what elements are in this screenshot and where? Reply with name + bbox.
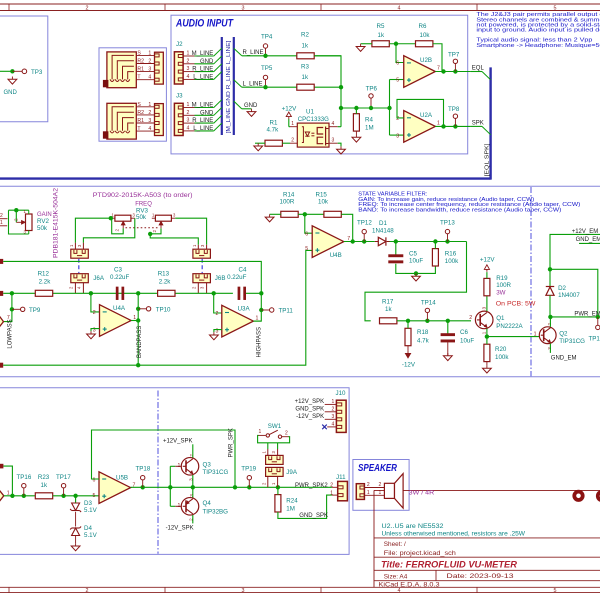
svg-text:U4A: U4A	[113, 305, 126, 312]
svg-text:6: 6	[305, 231, 308, 237]
junction	[394, 239, 398, 243]
gang dashed link	[126, 227, 160, 229]
svg-text:BAND: To increase bandwidth, r: BAND: To increase bandwidth, reduce resi…	[358, 207, 561, 213]
Q1 collector wire	[486, 296, 488, 311]
op-amp U4A	[100, 305, 132, 337]
svg-text:4: 4	[398, 5, 401, 11]
svg-text:1: 1	[291, 121, 294, 127]
wire after D1	[390, 241, 467, 243]
svg-text:TP8: TP8	[448, 106, 460, 113]
svg-text:SPEAKER: SPEAKER	[358, 463, 398, 474]
jack 1 mating connector	[155, 52, 164, 84]
junction	[548, 315, 552, 319]
zener D3 5.1V	[75, 496, 77, 503]
wire R14-R15	[298, 213, 324, 215]
svg-text:+12V: +12V	[480, 257, 495, 264]
J2 pin 3 R_LINE	[183, 71, 194, 73]
wire TP9 branch	[4, 293, 12, 321]
U1 pin 4	[329, 126, 338, 128]
wire Q1 emitter to Q2 base	[487, 336, 540, 338]
svg-text:1: 1	[481, 331, 486, 334]
bus entry SPK	[471, 125, 482, 127]
svg-text:-12V: -12V	[402, 362, 416, 369]
wire feedback rail	[365, 242, 467, 321]
resistor R20	[484, 344, 490, 361]
svg-text:3: 3	[332, 138, 335, 144]
svg-text:3: 3	[242, 588, 245, 594]
graphic box speaker amp section (bottom)	[0, 388, 349, 555]
svg-text:R23: R23	[38, 474, 50, 481]
svg-text:TIP32BG: TIP32BG	[203, 508, 229, 515]
J10 pin 1	[325, 403, 337, 405]
junction	[247, 485, 251, 489]
svg-text:1k: 1k	[385, 306, 392, 313]
svg-text:SW1: SW1	[268, 423, 282, 430]
J2 pin 2 GND	[183, 63, 194, 65]
graphic box power section (top left)	[0, 16, 48, 122]
wire bandpass vertical	[137, 293, 139, 365]
U1 pin 3	[329, 142, 338, 144]
svg-text:R24: R24	[286, 498, 298, 505]
potentiometer RV2 GAIN	[16, 221, 21, 223]
separator dash-dot speaker driver	[157, 391, 159, 554]
svg-text:S: S	[137, 102, 141, 108]
bus entry	[214, 48, 222, 56]
wires FREQ pots	[75, 218, 110, 243]
separator dash-dot EM driver	[530, 187, 532, 376]
svg-text:6: 6	[396, 61, 399, 67]
test point TP11	[261, 309, 269, 311]
bus entry	[214, 72, 222, 80]
ground	[415, 273, 417, 276]
svg-text:TP7: TP7	[448, 51, 460, 58]
svg-text:1: 1	[148, 50, 151, 56]
svg-text:1: 1	[367, 490, 370, 496]
wire to U3A pin2	[214, 293, 222, 313]
svg-text:U3A: U3A	[238, 305, 251, 312]
svg-text:GND_EM: GND_EM	[551, 356, 577, 362]
junction	[394, 42, 398, 46]
J2 pin 4 L_LINE	[183, 78, 194, 80]
junction	[485, 334, 489, 338]
wire R23 to U5B	[53, 495, 99, 497]
svg-text:2: 2	[367, 482, 370, 488]
svg-text:3: 3	[148, 118, 151, 124]
svg-text:AUDIO INPUT: AUDIO INPUT	[175, 17, 234, 29]
wire Q3 Q4 base rail	[169, 466, 171, 506]
junction	[168, 485, 172, 489]
junction	[453, 69, 457, 73]
J11 pin 2	[332, 486, 338, 488]
svg-text:TP3: TP3	[31, 69, 43, 76]
svg-text:2: 2	[14, 218, 19, 221]
junction	[109, 216, 113, 220]
svg-text:2: 2	[93, 310, 96, 316]
svg-text:100R: 100R	[280, 199, 295, 206]
svg-text:TP16: TP16	[17, 474, 32, 481]
svg-text:D2: D2	[558, 285, 566, 292]
svg-text:2.2k: 2.2k	[159, 278, 172, 285]
svg-text:100k: 100k	[495, 354, 509, 361]
gnd R14	[270, 213, 281, 215]
Q2 emitter / GND_EM	[549, 344, 551, 353]
junction	[233, 485, 237, 489]
junction	[259, 291, 263, 295]
svg-text:TP14: TP14	[421, 300, 436, 307]
svg-text:5: 5	[93, 493, 96, 499]
speaker symbol LS1	[384, 483, 394, 498]
resistor R4	[353, 114, 359, 131]
junction	[406, 319, 410, 323]
junction	[136, 307, 140, 311]
bus entry	[214, 100, 222, 108]
svg-text:Q4: Q4	[203, 500, 212, 507]
junction	[414, 271, 418, 275]
svg-text:GND: GND	[200, 110, 214, 116]
svg-text:4: 4	[332, 121, 335, 127]
svg-text:GND_SPK: GND_SPK	[295, 407, 324, 413]
junction	[61, 494, 65, 498]
svg-text:R5: R5	[377, 23, 385, 30]
svg-text:+12V_SPK: +12V_SPK	[295, 399, 325, 405]
audio jack symbol 2	[107, 103, 136, 139]
svg-text:4.7k: 4.7k	[267, 126, 280, 133]
svg-text:R19: R19	[496, 275, 508, 282]
svg-text:10uF: 10uF	[409, 258, 423, 265]
svg-text:2: 2	[332, 406, 335, 412]
svg-text:GND: GND	[200, 59, 214, 65]
junction	[276, 485, 280, 489]
page border frame	[0, 3, 600, 5]
bus entry	[214, 108, 222, 116]
junction	[10, 494, 14, 498]
svg-text:1: 1	[534, 332, 537, 338]
svg-text:4: 4	[187, 126, 190, 132]
svg-text:J10: J10	[336, 390, 347, 397]
svg-text:input to ground. Audio input i: input to ground. Audio input is pulled d…	[476, 28, 600, 34]
svg-text:CPC1333G: CPC1333G	[298, 116, 329, 123]
svg-text:100k: 100k	[445, 258, 459, 265]
junction	[263, 54, 267, 58]
junction	[148, 232, 152, 236]
U1 pin 2	[290, 142, 297, 144]
J10 pin 3	[325, 418, 337, 420]
svg-text:3: 3	[396, 133, 399, 139]
svg-text:J6B: J6B	[215, 275, 226, 282]
svg-text:3W: 3W	[496, 289, 505, 296]
svg-text:Smartphone -> Headphone: Musiq: Smartphone -> Headphone: Musique=50	[476, 43, 600, 49]
wire R6 to output	[433, 44, 442, 72]
svg-text:50k: 50k	[37, 225, 48, 232]
jumper J6A	[71, 274, 89, 283]
bus vertical EQL SPK	[489, 67, 491, 179]
ground R4	[355, 135, 357, 138]
svg-text:R_LINE: R_LINE	[192, 118, 213, 124]
svg-text:J3: J3	[176, 93, 183, 100]
wire +12V_EM	[550, 234, 600, 286]
junction	[339, 106, 343, 110]
svg-text:R14: R14	[283, 192, 295, 199]
junction	[369, 106, 373, 110]
J3 pin 4 L_LINE	[183, 130, 194, 132]
svg-text:2: 2	[148, 59, 151, 65]
svg-text:2: 2	[330, 482, 333, 488]
svg-text:0.22uF: 0.22uF	[110, 274, 129, 281]
jumper J4A upper	[71, 249, 89, 258]
svg-text:BANDPASS: BANDPASS	[137, 326, 143, 358]
svg-text:TIP31CG: TIP31CG	[203, 469, 229, 476]
svg-text:J11: J11	[336, 474, 346, 481]
svg-text:4: 4	[148, 126, 151, 132]
junction	[445, 239, 449, 243]
svg-text:+12V_EM: +12V_EM	[572, 229, 599, 235]
svg-text:R3: R3	[301, 63, 309, 70]
svg-text:Unless otherwised mentioned, r: Unless otherwised mentioned, resistors a…	[382, 531, 526, 537]
potentiometer RV3B	[155, 215, 171, 221]
svg-text:C5: C5	[409, 250, 417, 257]
svg-text:TP13: TP13	[440, 220, 455, 227]
J10 pin 2	[325, 411, 337, 413]
svg-text:5: 5	[554, 5, 557, 11]
svg-text:U4B: U4B	[330, 252, 342, 259]
svg-text:2: 2	[114, 229, 119, 232]
wire -12V_SPK	[192, 515, 194, 523]
off-page pin lowpass feed	[0, 291, 3, 296]
svg-text:J6A: J6A	[93, 275, 105, 282]
svg-text:+12V: +12V	[282, 106, 297, 113]
svg-text:3: 3	[242, 5, 245, 11]
svg-text:R18: R18	[417, 329, 429, 336]
svg-text:R6: R6	[419, 23, 427, 30]
wire tp6 row	[341, 107, 390, 109]
svg-text:EQL: EQL	[472, 66, 485, 72]
wire right rail	[314, 56, 341, 127]
zener D4 5.1V	[72, 527, 80, 529]
bus entry	[214, 56, 222, 64]
svg-text:TP18: TP18	[136, 466, 151, 473]
gnd U3A pin3	[214, 330, 222, 333]
EM pads wire	[374, 489, 600, 491]
svg-text:50k: 50k	[136, 214, 147, 221]
svg-text:M_LINE: M_LINE	[192, 51, 214, 57]
svg-text:10k: 10k	[318, 199, 329, 206]
junction	[10, 69, 14, 73]
resistor R16	[432, 249, 438, 266]
svg-text:1: 1	[259, 429, 262, 435]
junction	[441, 124, 445, 128]
svg-text:1k: 1k	[302, 74, 309, 81]
svg-text:2: 2	[291, 138, 294, 144]
Q2 collector wire	[549, 317, 551, 327]
bus horizontal main	[0, 177, 491, 179]
svg-text:D4: D4	[84, 525, 92, 532]
svg-text:SPK: SPK	[472, 121, 484, 127]
junction	[14, 208, 18, 212]
svg-text:Q2: Q2	[559, 331, 568, 338]
svg-text:3: 3	[332, 414, 335, 420]
title block frame	[374, 537, 600, 539]
svg-text:GND_EM: GND_EM	[576, 237, 600, 243]
junction	[10, 307, 14, 311]
junction	[89, 291, 93, 295]
svg-text:3: 3	[187, 118, 190, 124]
bus entry	[214, 64, 222, 72]
svg-text:R2: R2	[137, 59, 144, 65]
resistor R24	[275, 495, 281, 512]
svg-text:1N4148: 1N4148	[372, 227, 394, 234]
svg-text:TP19: TP19	[241, 466, 256, 473]
svg-text:1k: 1k	[302, 42, 309, 49]
svg-text:R12: R12	[38, 271, 50, 278]
svg-text:U5B: U5B	[116, 475, 128, 482]
test point TP9	[12, 308, 21, 310]
svg-text:TP5: TP5	[261, 65, 273, 72]
off-page pins left	[0, 218, 8, 220]
svg-text:5: 5	[554, 588, 557, 594]
wire R17 out	[397, 320, 471, 322]
svg-text:R2: R2	[301, 32, 309, 39]
wires GAIN pot	[9, 209, 29, 211]
junction	[425, 319, 429, 323]
wire gnd stub	[242, 108, 252, 110]
svg-text:D1: D1	[379, 220, 387, 227]
junction	[548, 267, 552, 271]
svg-text:U1: U1	[306, 109, 314, 116]
gnd R5	[361, 43, 372, 45]
power -12V	[407, 351, 409, 355]
svg-text:1: 1	[437, 121, 440, 127]
wire U5A loop	[3, 466, 12, 496]
mech link dashed	[201, 259, 203, 274]
svg-text:TP9: TP9	[29, 307, 41, 314]
jumper J9B upper	[266, 455, 284, 464]
junction	[446, 319, 450, 323]
svg-text:PWR_SPK: PWR_SPK	[228, 428, 234, 457]
svg-text:RV2: RV2	[37, 218, 49, 225]
svg-text:C6: C6	[460, 329, 468, 336]
svg-text:Q1: Q1	[496, 315, 505, 322]
wire +12V_SPK	[192, 444, 194, 457]
svg-text:4: 4	[332, 422, 335, 428]
svg-text:R4: R4	[365, 117, 373, 124]
junction	[339, 85, 343, 89]
junction	[441, 69, 445, 73]
wire L_LINE row	[242, 86, 341, 88]
SW1 wires	[258, 435, 290, 442]
svg-text:TP11: TP11	[279, 308, 294, 315]
wire R1 to pin2	[282, 142, 290, 144]
svg-text:L_LINE: L_LINE	[193, 126, 213, 132]
junction	[596, 315, 600, 319]
J3 pin 2 GND	[183, 114, 194, 116]
svg-text:3W / 4R: 3W / 4R	[409, 491, 435, 497]
svg-text:2: 2	[469, 315, 472, 321]
junction	[433, 239, 437, 243]
junction	[212, 291, 216, 295]
junction	[10, 291, 14, 295]
svg-text:R_LINE: R_LINE	[192, 67, 213, 73]
svg-text:Q3: Q3	[203, 462, 212, 469]
J11 pin 1	[332, 494, 338, 496]
svg-text:2: 2	[216, 311, 219, 317]
svg-text:1: 1	[0, 220, 3, 226]
wire to U2B pin5 and U2A pin3	[389, 80, 391, 136]
ground	[340, 146, 342, 149]
svg-text:R1: R1	[137, 118, 144, 124]
svg-text:GND: GND	[4, 90, 18, 96]
svg-text:4: 4	[148, 75, 151, 81]
svg-text:J9A: J9A	[286, 469, 298, 476]
op-amp U3A	[222, 305, 254, 337]
junction	[136, 291, 140, 295]
potentiometer RV3A	[115, 215, 131, 221]
svg-text:2: 2	[187, 110, 190, 116]
svg-text:0.22uF: 0.22uF	[227, 274, 246, 281]
speaker wires	[364, 487, 384, 489]
off-page pin U5A feedback	[0, 464, 3, 469]
mech link dashed	[78, 259, 80, 274]
wire R_LINE row	[242, 55, 341, 57]
gnd U4A pin3	[91, 329, 100, 332]
svg-text:1: 1	[148, 102, 151, 108]
svg-text:1: 1	[332, 399, 335, 405]
wire pin4 to rail	[338, 126, 341, 128]
wire GND_SPK loop	[278, 495, 332, 518]
bus audio lines vertical pair	[221, 37, 223, 135]
audio jack symbol 1	[107, 52, 136, 88]
wire R1 left gnd	[255, 142, 265, 144]
transistor Q2 TIP31CG	[539, 327, 556, 344]
off-page pin highpass	[0, 259, 3, 264]
bus entry	[214, 115, 222, 123]
svg-text:L_LINE: L_LINE	[193, 75, 213, 81]
op-amp U2B	[404, 56, 436, 88]
svg-text:100R: 100R	[496, 282, 511, 289]
U2A feedback	[397, 99, 444, 126]
jumper J6B	[193, 274, 211, 283]
EM pad 2	[598, 492, 600, 500]
svg-text:2: 2	[148, 110, 151, 116]
svg-text:2: 2	[152, 230, 157, 233]
junction	[73, 494, 77, 498]
svg-text:3: 3	[187, 66, 190, 72]
junction	[354, 106, 358, 110]
svg-text:2: 2	[0, 213, 3, 219]
svg-text:3: 3	[148, 67, 151, 73]
no-connect X J10 pin4	[322, 425, 327, 430]
off-page pin bandpass	[0, 363, 3, 368]
svg-text:R13: R13	[158, 271, 170, 278]
svg-text:R16: R16	[445, 251, 457, 258]
svg-text:1: 1	[379, 490, 382, 496]
svg-text:TIP31CG: TIP31CG	[559, 338, 585, 345]
svg-text:5: 5	[305, 246, 308, 252]
svg-text:[M_LINE GND R_LINE L_LINE]: [M_LINE GND R_LINE L_LINE]	[226, 40, 232, 134]
wire output row to SW area	[174, 486, 332, 488]
svg-text:File: project.kicad_sch: File: project.kicad_sch	[384, 550, 456, 557]
junction	[191, 485, 195, 489]
svg-text:LOWPASS: LOWPASS	[7, 319, 13, 348]
svg-text:2: 2	[86, 588, 89, 594]
wire row L1	[3, 261, 261, 321]
svg-text:7: 7	[437, 66, 440, 72]
svg-text:2: 2	[379, 482, 382, 488]
svg-text:1N4007: 1N4007	[558, 292, 580, 299]
power +12V Q1	[486, 272, 488, 278]
speaker connector	[356, 484, 364, 500]
wire input row	[4, 495, 35, 497]
EM pad 1	[574, 492, 582, 500]
